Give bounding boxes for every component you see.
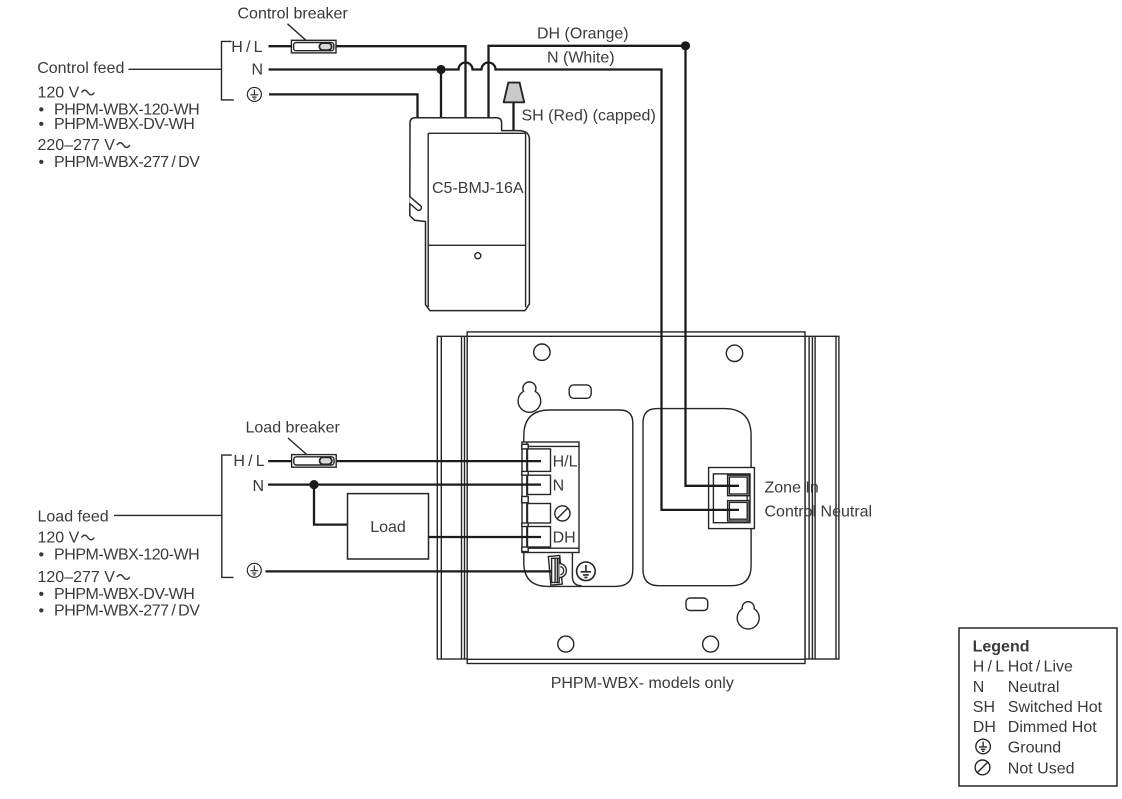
svg-text:120 V: 120 V [38,529,80,546]
junction dot: DH corner [681,41,690,50]
mounting hole top-right [726,345,742,361]
svg-text:•: • [39,154,45,171]
wire: H/L control feed into breaker [269,45,293,47]
legend ground symbol [976,739,991,754]
leader line to load breaker [288,438,312,459]
legend box [959,628,1117,786]
terminal H/L [528,449,551,472]
wire: SH stub [512,102,514,131]
leader line to control breaker [288,24,312,45]
svg-text:•: • [39,116,45,133]
svg-text:Zone In: Zone In [765,480,819,497]
svg-text:N: N [253,478,265,495]
wire: N load feed to terminal [268,483,541,485]
slot bottom [686,598,708,611]
ground screw body [552,558,560,582]
C5 module face top edge [428,132,525,134]
terminal block inner top line [522,445,579,447]
junction dot: N feed / N branch [436,65,445,74]
module inner corner below terminal block [572,553,581,586]
svg-text:PHPM-WBX- models only: PHPM-WBX- models only [551,675,734,692]
ground symbol (load feed) [247,563,261,577]
svg-text:PHPM-WBX-DV-WH: PHPM-WBX-DV-WH [54,586,194,603]
terminal block inner bottom line [522,547,579,549]
control feed bracket [222,41,234,100]
svg-text:120 V: 120 V [38,84,80,101]
C5 module mounting slot notch [409,196,421,210]
svg-text:Control feed: Control feed [37,60,124,77]
wall box back plate [467,332,805,664]
leader line from Control feed to bracket [129,68,222,70]
left module (dimmer body) [524,410,633,586]
svg-text:N: N [252,61,264,78]
svg-text:•: • [39,546,45,563]
mounting hole top-left [534,344,550,360]
svg-text:PHPM-WBX-277 / DV: PHPM-WBX-277 / DV [54,154,200,171]
svg-text:220–277 V: 220–277 V [38,137,116,154]
terminal block tabs [522,444,528,449]
terminal block outer [522,442,579,553]
terminal block left strip [526,442,528,553]
wire: H/L load feed into breaker [268,460,292,462]
svg-text:PHPM-WBX-277 / DV: PHPM-WBX-277 / DV [54,602,200,619]
keyhole bottom-right [737,602,759,629]
svg-text:N: N [973,679,985,696]
load feed bracket [222,455,234,577]
svg-text:Load feed: Load feed [38,508,109,525]
C5 module LED hole [475,253,481,259]
svg-text:Load: Load [370,519,406,536]
svg-text:H / L: H / L [233,453,264,470]
plate top hem line [467,335,805,337]
mounting hole bottom-right [703,636,719,652]
svg-text:N: N [553,477,565,494]
svg-text:Load breaker: Load breaker [246,420,341,437]
svg-text:SH: SH [973,699,995,716]
wire: N branch down into C5 module [440,70,442,119]
ground symbol (wall box) [577,562,596,581]
wire: N branch to Load [314,485,348,525]
svg-text:Legend: Legend [973,638,1030,655]
svg-text:Dimmed Hot: Dimmed Hot [1008,719,1097,736]
wire: Load to DH terminal [429,536,542,538]
C5 module face left edge [427,133,429,307]
wall box left flange [437,336,467,659]
plate bottom hem line [467,658,805,660]
wire: N control feed with hops, right and down to Control Neutral [269,63,740,510]
svg-text:Not Used: Not Used [1008,760,1075,777]
svg-text:•: • [39,586,45,603]
svg-text:•: • [39,602,45,619]
svg-text:PHPM-WBX-120-WH: PHPM-WBX-120-WH [54,546,199,563]
load breaker symbol [292,455,337,468]
mounting hole bottom-left [558,636,574,652]
ground screw washer [548,555,562,585]
C5 module divider line [428,244,525,246]
svg-text:DH: DH [553,530,576,547]
keyhole top-left [518,382,541,412]
wire: H/L breaker to corner, down into C5 module [335,46,466,118]
wire: H/L breaker to terminal [335,460,541,462]
control breaker symbol [291,40,336,53]
terminal not-used [528,504,551,524]
load box [348,494,429,559]
svg-text:Control breaker: Control breaker [238,6,349,23]
svg-text:Control Neutral: Control Neutral [765,503,873,520]
terminal Zone In [728,475,749,496]
svg-text:Hot / Live: Hot / Live [1008,658,1073,675]
legend not used symbol [975,760,990,775]
svg-text:N (White): N (White) [547,50,615,67]
C5-BMJ-16A module outline [410,118,530,311]
wire: ground control feed, down into C5 module [269,94,418,118]
terminal N [528,475,551,494]
svg-text:120–277 V: 120–277 V [38,569,116,586]
wall box right flange [805,336,839,659]
right module (zone section) [643,409,751,586]
slot top [569,385,591,398]
svg-text:DH (Orange): DH (Orange) [537,26,629,43]
zone connector inner frame [713,474,750,523]
ground symbol (control feed) [247,87,261,101]
terminal Control Neutral [728,501,749,521]
svg-text:SH (Red) (capped): SH (Red) (capped) [522,108,656,125]
svg-text:DH: DH [973,719,996,736]
zone connector outer [709,468,755,529]
svg-text:Neutral: Neutral [1008,679,1060,696]
wire nut (SH capped) [504,83,525,103]
wire: ground load feed to ground screw [266,570,552,572]
C5 module face right edge [525,133,527,307]
wire: DH from C5 module up, right, and down to Zone In [489,46,740,486]
leader line from Load feed to bracket [114,514,222,516]
not used symbol at terminal [555,506,570,521]
svg-text:H / L: H / L [973,658,1004,675]
svg-text:C5-BMJ-16A: C5-BMJ-16A [432,180,524,197]
svg-text:H / L: H / L [231,39,262,56]
svg-text:PHPM-WBX-DV-WH: PHPM-WBX-DV-WH [54,116,194,133]
svg-text:Ground: Ground [1008,739,1061,756]
junction dot: load N [309,480,318,489]
svg-text:H/L: H/L [553,453,578,470]
ground screw dome [559,564,566,578]
svg-text:Switched Hot: Switched Hot [1008,699,1103,716]
terminal DH [528,527,551,548]
